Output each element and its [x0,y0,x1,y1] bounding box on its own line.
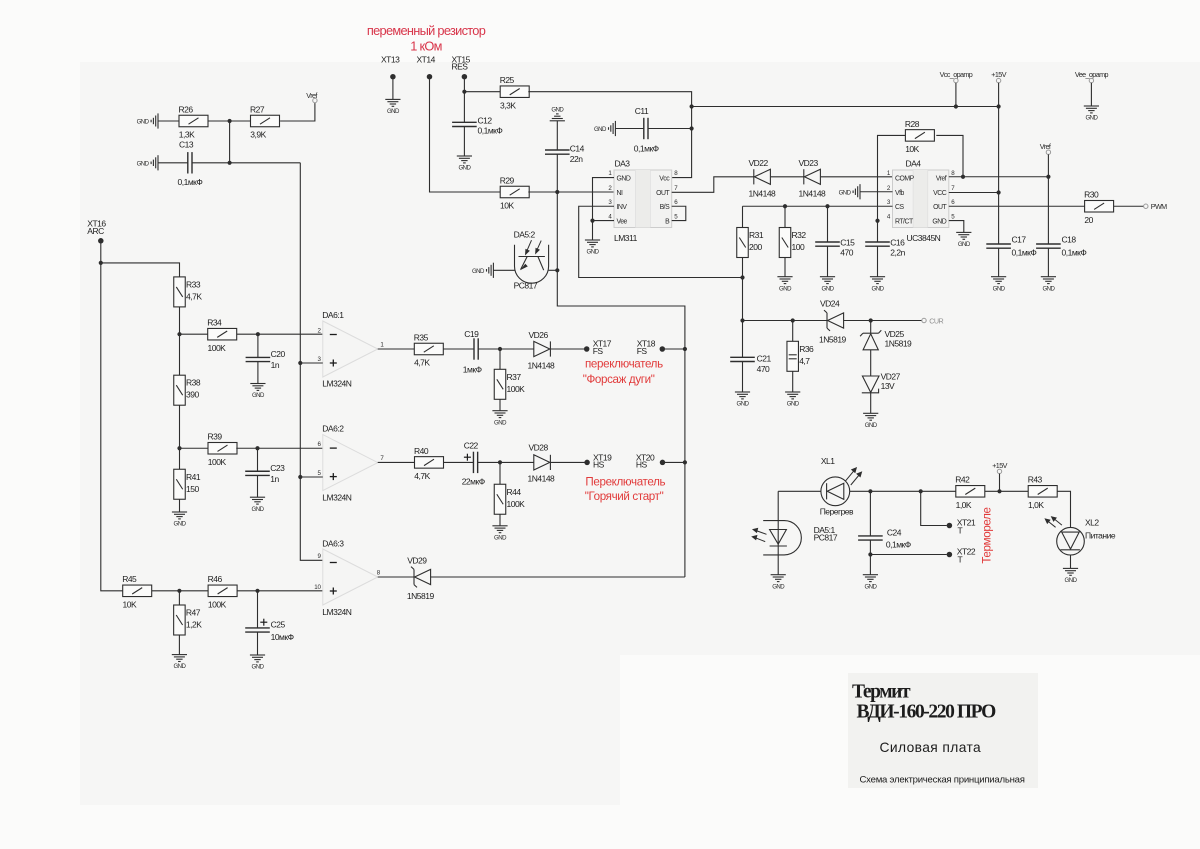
svg-text:Питание: Питание [1085,531,1116,541]
wire [528,92,691,178]
wire [499,462,501,484]
resistor R39 [208,443,237,455]
ground GND (XL2) [1063,568,1078,575]
svg-text:10K: 10K [500,201,514,211]
wire [1047,248,1049,276]
junction [555,268,559,272]
ground GND (C24) [863,575,878,582]
svg-text:Vee_opamp: Vee_opamp [1075,70,1109,79]
svg-text:DA3: DA3 [615,159,631,169]
wire [665,348,685,350]
wire [870,350,872,376]
ground GND (above C14) [550,114,565,121]
svg-text:XL1: XL1 [821,456,835,466]
ground GND (C11) [609,121,616,136]
svg-text:VCC: VCC [933,190,947,197]
svg-text:470: 470 [840,247,853,257]
svg-text:GND: GND [839,189,852,196]
wire [877,246,879,276]
wire [493,269,514,271]
svg-text:1N4148: 1N4148 [749,188,777,198]
capacitor C19 [474,338,478,359]
terminal CUR [922,318,926,322]
wire [378,461,415,463]
ground GND (R41) [172,512,187,519]
wire [499,514,501,525]
wire [784,258,786,277]
wire (+15V rail) [998,83,1000,244]
wire [778,490,821,492]
wire [528,191,614,193]
wire [860,191,893,193]
op-amp DA6:2 LM324N [323,435,378,491]
svg-text:1N4148: 1N4148 [528,473,556,483]
svg-text:470: 470 [757,364,770,374]
wire (DA3 B/S-B) [672,206,686,220]
svg-text:C24: C24 [887,528,902,538]
svg-text:GND: GND [822,285,835,292]
wire (DA3 OUT) [672,177,754,193]
svg-text:OUT: OUT [933,204,947,211]
wire [463,79,465,122]
resistor R32 [779,228,791,258]
svg-text:22мкФ: 22мкФ [462,476,485,486]
svg-text:C14: C14 [570,144,585,154]
wire [178,635,180,654]
wire [1057,491,1070,527]
wire (R28 to RT/CT) [878,135,906,242]
wire [257,362,259,384]
svg-text:LM324N: LM324N [322,493,351,503]
svg-text:GND: GND [458,165,471,172]
wire [949,221,964,233]
light arrows DA5:1 [752,528,766,541]
wire [280,103,315,121]
svg-text:"Горячий старт": "Горячий старт" [585,490,664,503]
svg-text:1N4148: 1N4148 [799,188,827,198]
resistor R35 [414,343,443,355]
resistor R28 [905,130,934,142]
ground GND (R37) [492,411,507,418]
svg-text:VD26: VD26 [529,330,549,340]
svg-text:VD22: VD22 [749,158,769,168]
svg-text:GND: GND [958,241,971,248]
svg-text:150: 150 [186,484,199,494]
svg-text:C22: C22 [464,440,479,450]
title block background [848,673,1038,788]
svg-text:1,2K: 1,2K [186,620,202,630]
svg-text:+15V: +15V [992,461,1007,470]
diode VD24 1N5819 [824,310,844,331]
svg-text:FS: FS [637,346,648,356]
wire [300,476,323,478]
svg-text:100K: 100K [208,599,227,609]
junction [298,475,302,479]
svg-text:20: 20 [1084,215,1093,225]
capacitor C21 [730,357,755,361]
wire [444,461,474,463]
svg-text:ARC: ARC [87,226,104,236]
svg-text:Vcc_opamp: Vcc_opamp [940,70,973,79]
svg-text:100: 100 [792,242,805,252]
svg-text:1N4148: 1N4148 [528,360,556,370]
wire [742,362,744,392]
ground GND (C20) [250,384,265,391]
plus sign C25 [260,619,267,626]
svg-text:Vfb: Vfb [895,190,905,197]
svg-text:DA6:2: DA6:2 [322,424,344,434]
svg-text:22n: 22n [570,154,583,164]
svg-text:Термит: Термит [852,682,911,703]
terminal XT22 [947,552,953,558]
terminal XT16 [98,238,104,244]
diode VD22 1N4148 [754,169,771,184]
resistor R25 [500,86,529,98]
svg-text:Vcc: Vcc [659,175,670,182]
resistor R47 [174,605,186,635]
terminal Vref [1046,150,1050,154]
svg-text:GND: GND [494,534,507,541]
terminal +15V [996,78,1000,82]
svg-text:VD28: VD28 [529,443,549,453]
capacitor C25 (polarized) [245,628,270,632]
wire [179,334,181,375]
op-amp DA6:3 LM324N [323,549,378,605]
svg-text:GND: GND [551,107,564,114]
ground GND (DA5:1) [771,575,786,582]
terminal Vee_opamp [1089,78,1093,82]
op-amp DA6:1 LM324N [323,321,378,377]
LED XL2 [1057,527,1085,555]
wire [392,79,394,99]
junction [555,190,559,194]
resistor R26 [179,115,208,127]
svg-text:4,7: 4,7 [799,356,810,366]
diode VD28 1N4148 [534,455,551,470]
terminal XT17 [584,346,590,352]
wire [257,632,259,655]
wire [430,79,501,192]
wire [179,448,181,469]
svg-text:GND: GND [787,401,800,408]
svg-text:PWM: PWM [1151,202,1167,211]
wire [478,348,534,350]
svg-text:переменный резистор: переменный резистор [367,23,486,38]
ground GND (DA4 pin5) [956,232,971,239]
junction [498,460,502,464]
wire [742,278,744,358]
svg-text:FS: FS [593,346,604,356]
svg-text:переключатель: переключатель [585,357,663,370]
ground GND (C25) [250,655,265,662]
svg-text:GND: GND [173,663,186,670]
svg-text:B/S: B/S [660,204,671,211]
svg-text:0,1мкФ: 0,1мкФ [1012,248,1037,258]
svg-text:C21: C21 [757,353,772,363]
svg-text:R47: R47 [186,608,201,618]
svg-text:DA5:2: DA5:2 [514,230,536,240]
wire [1047,154,1049,244]
junction [875,219,879,223]
terminal PWM [1144,204,1148,208]
ground GND (R32) [777,277,792,284]
wire [257,591,259,628]
junction [99,261,103,265]
plus sign C22 [464,454,471,461]
svg-text:GND: GND [864,583,877,590]
wire [236,447,323,449]
ground GND (C23) [250,497,265,504]
junction [997,190,1001,194]
svg-text:RT/CT: RT/CT [895,218,914,225]
wire (C13 node to op-amp inputs) [300,163,323,561]
svg-text:1N5819: 1N5819 [819,334,847,344]
ground GND (C16) [870,277,885,284]
svg-text:1 кОм: 1 кОм [410,39,442,54]
svg-text:R30: R30 [1084,190,1099,200]
junction [256,332,260,336]
svg-text:R38: R38 [186,378,201,388]
junction [177,332,181,336]
wire [869,491,871,536]
junction [255,589,259,593]
svg-text:R26: R26 [179,104,194,114]
svg-text:C23: C23 [270,463,285,473]
junction [740,318,744,322]
svg-text:1n: 1n [271,360,280,370]
wire [237,590,323,592]
wire [844,320,922,322]
svg-text:200: 200 [749,242,762,252]
wire [692,106,999,108]
wire [551,461,585,463]
junction [997,489,1001,493]
zener diode VD27 13V (vertical) [862,376,879,393]
svg-text:C11: C11 [635,106,649,116]
ground GND (Vfb) [853,184,860,199]
capacitor C13 [188,152,192,173]
ground GND (C15) [820,277,835,284]
wire [178,591,180,605]
wire [827,206,829,242]
op-amp U DA3 LM311 body [614,170,672,228]
wire [742,258,744,278]
wire [921,491,947,525]
svg-text:100K: 100K [507,384,526,394]
svg-text:VD23: VD23 [799,158,819,168]
svg-text:XT14: XT14 [417,54,436,64]
svg-text:R33: R33 [186,279,201,289]
wire [464,91,500,93]
ground GND (R44) [492,526,507,533]
wire [870,393,872,413]
wire (CUR row) [743,320,828,322]
svg-text:DA4: DA4 [906,159,922,169]
light arrows XL2 [1045,517,1062,528]
svg-text:100K: 100K [208,343,227,353]
capacitor C12 [452,122,477,126]
junction [298,361,302,365]
svg-text:RES: RES [452,62,469,72]
svg-text:HS: HS [593,460,605,470]
wire [985,490,1028,492]
svg-text:GND: GND [993,285,1006,292]
wire [827,246,829,276]
junction [740,275,744,279]
svg-text:0,1мкФ: 0,1мкФ [478,126,503,136]
IC DA4 UC3845N body [893,170,949,228]
capacitor C11 [644,118,648,139]
svg-text:GND: GND [494,419,507,426]
ground GND (DA3) [585,240,600,247]
optocoupler DA5:2 PC817 (photo-transistor) [515,245,549,283]
diode VD23 1N4148 [804,169,821,184]
wire [378,576,414,578]
diode VD29 1N5819 [411,567,431,588]
wire [499,399,501,410]
terminal XT15 [462,74,468,80]
svg-text:R25: R25 [500,75,515,85]
wire [192,162,300,164]
wire [551,348,584,350]
wire [378,348,415,350]
terminal Vcc_opamp [954,78,958,82]
svg-text:1мкФ: 1мкФ [463,365,482,375]
wire [179,307,181,334]
ground GND (left of C13) [151,155,158,170]
svg-text:"Форсаж дуги": "Форсаж дуги" [583,373,655,386]
svg-text:Схема электрическая принципиал: Схема электрическая принципиальная [860,775,1025,786]
wire (CS row) [743,205,893,207]
svg-text:GND: GND [737,401,750,408]
svg-text:Vref: Vref [936,175,947,182]
svg-text:1N5819: 1N5819 [407,591,435,601]
junction [1046,175,1050,179]
wire [648,128,692,130]
svg-text:C25: C25 [271,620,286,630]
junction [783,204,787,208]
svg-text:GND: GND [594,126,607,133]
svg-text:GND: GND [587,249,600,256]
wire [478,461,534,463]
svg-text:+15V: +15V [991,70,1006,79]
svg-text:R27: R27 [250,104,265,114]
terminal XT19 [584,460,590,466]
ground GND (C17) [991,277,1006,284]
wire (DA3 pin1) [593,178,615,240]
terminal Vref [313,98,317,102]
wire [180,447,209,449]
wire [1070,555,1072,568]
capacitor C17 [986,244,1011,248]
svg-text:2,2n: 2,2n [890,247,905,257]
svg-text:GND: GND [252,506,265,513]
wire [229,121,231,163]
svg-text:C15: C15 [840,237,855,247]
junction [683,347,687,351]
ground GND (C18) [1041,277,1056,284]
wire [784,206,786,227]
wire [431,576,685,578]
junction [690,126,694,130]
junction [177,446,181,450]
svg-text:R42: R42 [955,475,970,485]
wire [850,490,956,492]
svg-text:LM324N: LM324N [322,607,351,617]
wire [257,334,259,357]
svg-text:GND: GND [472,268,485,275]
svg-text:10K: 10K [123,599,137,609]
wire [869,540,871,574]
junction [255,446,259,450]
svg-text:R46: R46 [208,574,223,584]
resistor R36 [787,341,799,371]
wire [549,269,558,271]
svg-text:GND: GND [872,285,885,292]
svg-text:4,7K: 4,7K [186,291,202,301]
svg-text:PC817: PC817 [814,533,838,543]
junction [791,318,795,322]
junction [961,175,965,179]
wire [257,448,259,471]
capacitor C22 (polarized) [473,452,477,473]
resistor R37 [494,369,506,399]
wire [158,120,179,122]
capacitor C18 [1036,244,1061,248]
wire (PWM row) [949,205,1085,207]
svg-text:R39: R39 [208,432,223,442]
wire [1090,83,1092,106]
svg-text:INV: INV [617,204,628,211]
svg-text:R44: R44 [507,487,522,497]
junction [919,489,923,493]
svg-text:R34: R34 [207,318,222,328]
svg-text:Переключатель: Переключатель [585,475,665,488]
svg-text:XL2: XL2 [1085,518,1099,528]
wire [101,263,180,277]
svg-text:DA6:3: DA6:3 [322,538,344,548]
svg-text:GND: GND [1042,285,1055,292]
ground GND (XT13) [385,99,400,106]
svg-text:UC3845N: UC3845N [907,233,941,243]
svg-text:VD24: VD24 [820,299,840,309]
svg-text:10: 10 [314,584,321,591]
svg-text:R41: R41 [186,472,201,482]
svg-text:100K: 100K [507,499,526,509]
junction [869,318,873,322]
svg-text:1,3K: 1,3K [179,130,195,140]
svg-text:GND: GND [137,160,150,167]
svg-text:LM324N: LM324N [322,378,351,388]
wire [257,475,259,497]
svg-text:CS: CS [895,204,904,211]
svg-text:GND: GND [1085,115,1098,122]
light arrows XL1 [846,468,862,485]
wire [955,83,957,107]
terminal XT14 [427,74,433,80]
svg-text:C19: C19 [464,329,479,339]
wire [556,121,558,150]
svg-text:3,3K: 3,3K [500,100,516,110]
capacitor C15 [815,242,840,246]
svg-text:DA6:1: DA6:1 [322,310,344,320]
terminal XT18 [660,346,666,352]
ground GND (left of R26) [151,113,158,128]
svg-text:COMP: COMP [895,175,915,182]
wire [152,590,208,592]
svg-text:R36: R36 [799,344,814,354]
svg-text:C16: C16 [890,237,905,247]
